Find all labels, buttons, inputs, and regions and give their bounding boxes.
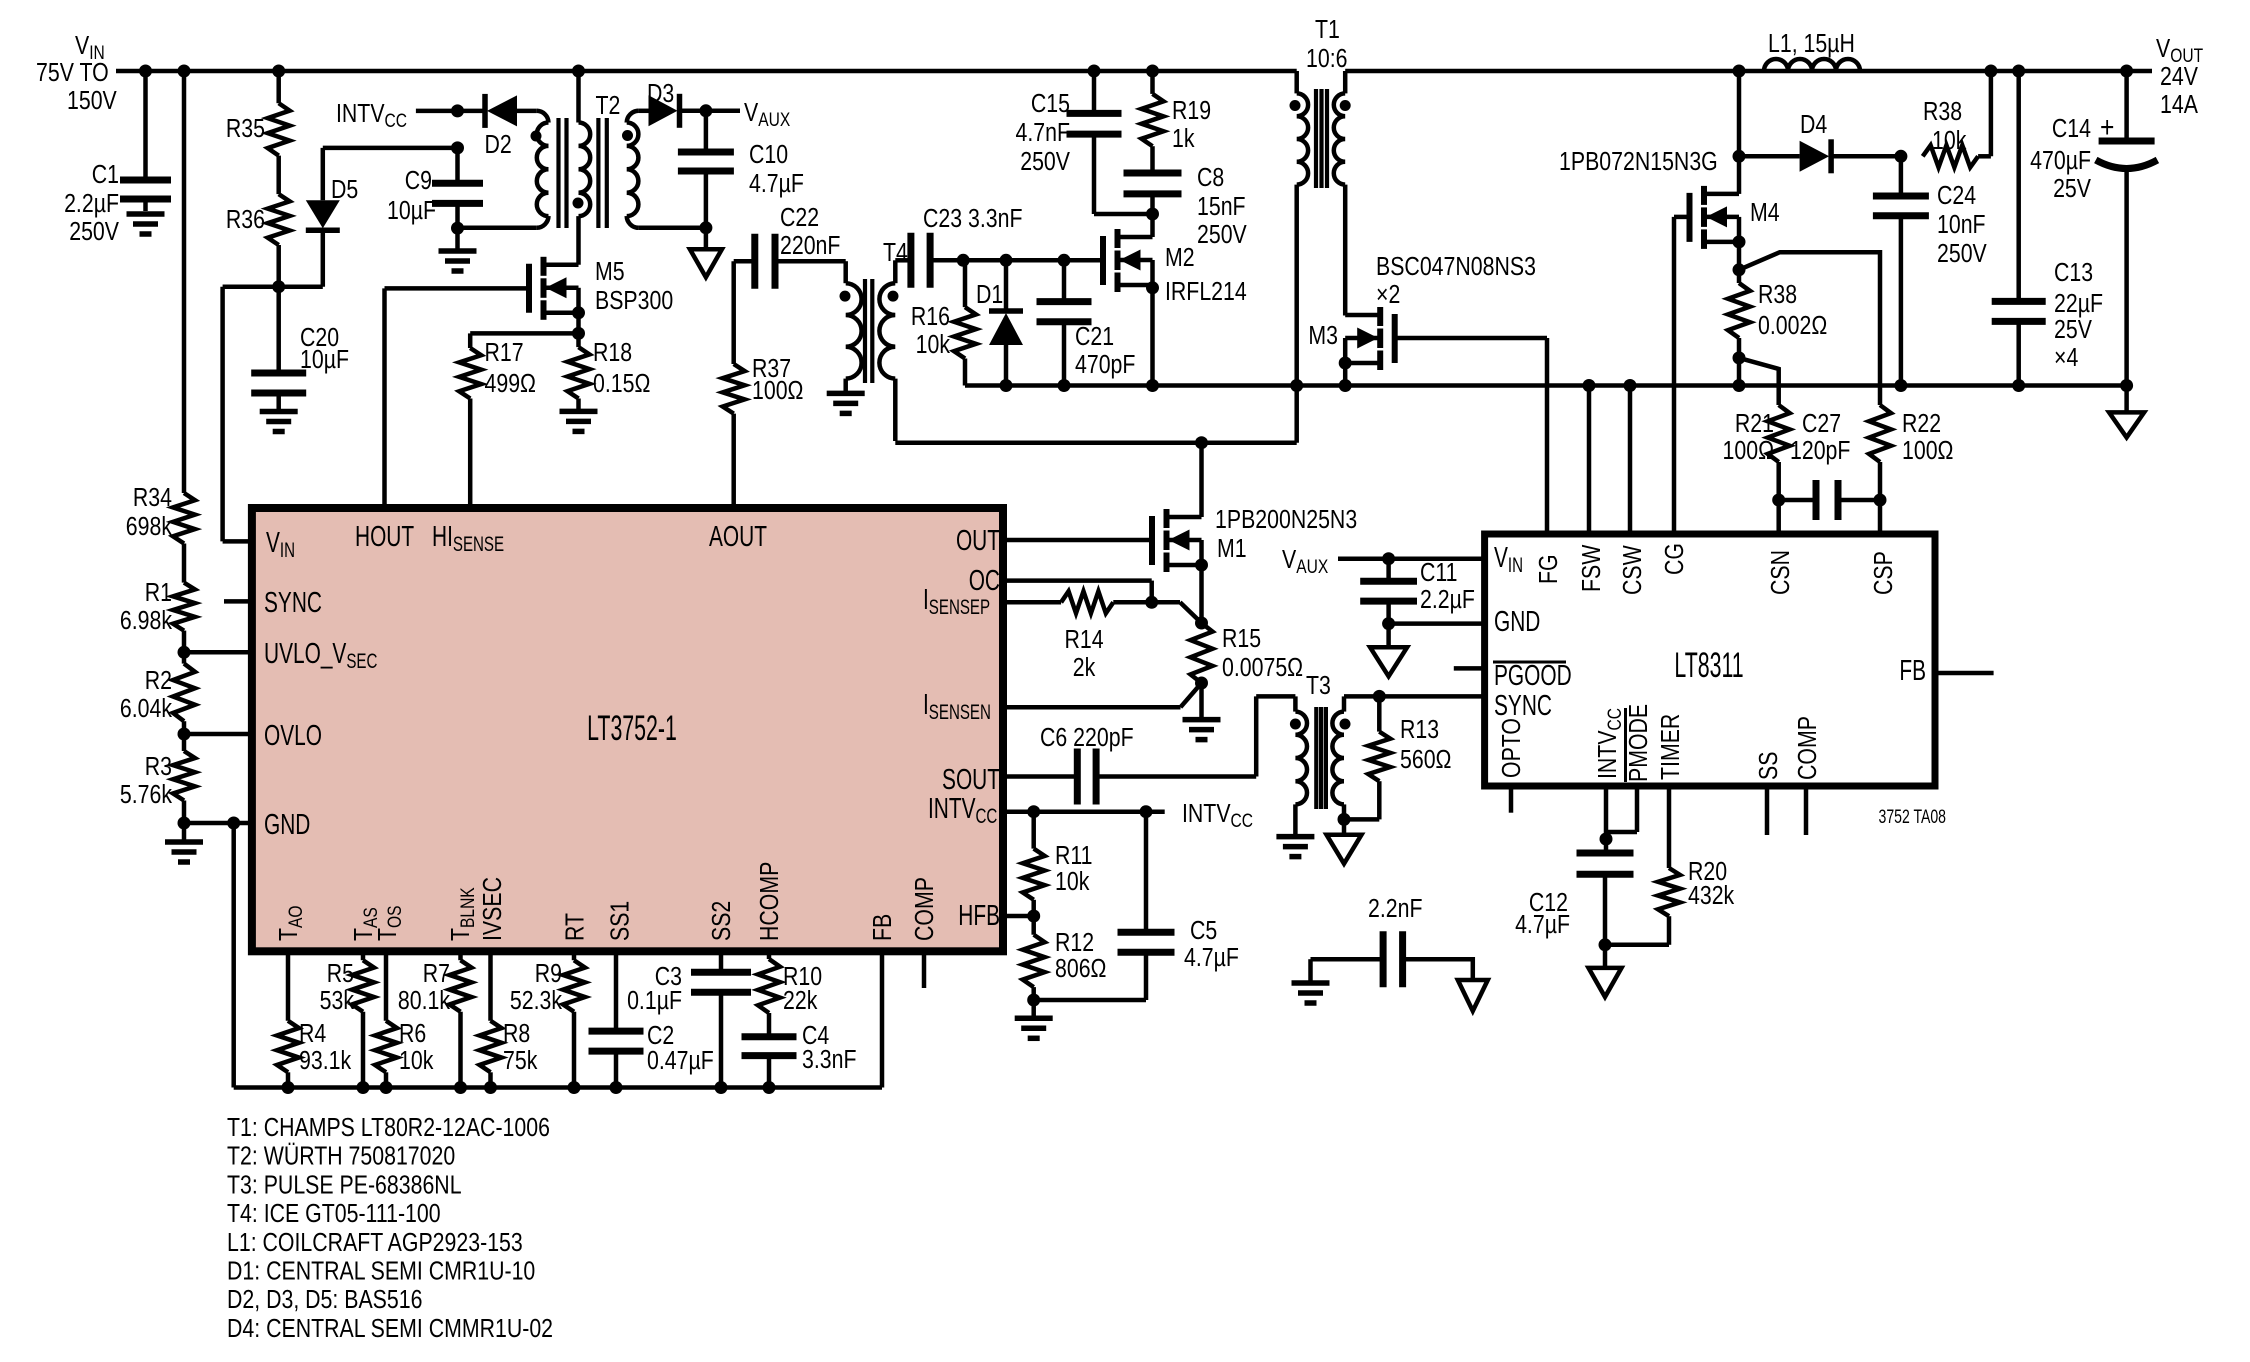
diode D2 xyxy=(485,94,537,160)
svg-text:2.2µF: 2.2µF xyxy=(1420,585,1475,615)
junction dot HFB xyxy=(1027,910,1040,923)
junction dot M4 source xyxy=(1733,235,1746,248)
junction dot VAUX/C10 xyxy=(699,104,712,117)
ground R12 xyxy=(1015,1000,1053,1038)
transformer T4 winding W1 xyxy=(846,261,862,393)
capacitor C1 xyxy=(64,71,171,247)
transformer T1 label xyxy=(1306,15,1347,74)
wire C15 to C8 node xyxy=(1094,212,1153,217)
wire R12 bottom xyxy=(1031,987,1036,1000)
junction dot M1 drain branch xyxy=(1195,436,1208,449)
svg-text:R3: R3 xyxy=(145,752,172,782)
ground T4 primary xyxy=(827,393,865,413)
resistor R22 xyxy=(1869,405,1953,466)
wire kelvin CSP xyxy=(1739,252,1880,405)
svg-text:24V: 24V xyxy=(2160,62,2198,92)
svg-text:R5: R5 xyxy=(327,959,354,989)
wire VAUX stub xyxy=(706,109,740,114)
svg-text:IRFL214: IRFL214 xyxy=(1165,277,1247,307)
junction dot T1/rail2 xyxy=(1290,379,1303,392)
capacitor C15 xyxy=(1015,71,1121,214)
junction dot C4/bus xyxy=(763,1081,776,1094)
wire CSW pin xyxy=(1628,386,1633,535)
junction dot R6/bus xyxy=(380,1081,393,1094)
svg-text:PMODE: PMODE xyxy=(1624,704,1654,782)
capacitor C5 xyxy=(1034,812,1239,1000)
transformer T2 winding W3 xyxy=(627,111,706,228)
svg-text:470pF: 470pF xyxy=(1075,350,1135,380)
resistor R8 xyxy=(480,1019,538,1076)
junction dot GND branch xyxy=(227,817,240,830)
wire COMP stub xyxy=(922,951,927,988)
wire D5 top to INTVCC node xyxy=(323,146,458,151)
wire TOS pin xyxy=(384,951,389,1020)
svg-text:R2: R2 xyxy=(145,666,172,696)
svg-text:D4: D4 xyxy=(1800,110,1827,140)
svg-text:C5: C5 xyxy=(1190,916,1217,946)
svg-text:250V: 250V xyxy=(1937,239,1987,269)
junction dot T2 W2/rail xyxy=(572,65,585,78)
transformer T4 phase dot W1 xyxy=(840,291,851,302)
junction dot M5 source xyxy=(572,306,585,319)
junction dot D4 node xyxy=(1733,150,1746,163)
junction dot CSW/rail2 xyxy=(1624,379,1637,392)
capacitor C23 xyxy=(895,204,1022,288)
junction dot C12 bottom xyxy=(1599,938,1612,951)
svg-text:D4: CENTRAL SEMI CMMR1U-02: D4: CENTRAL SEMI CMMR1U-02 xyxy=(227,1314,553,1344)
wire M1 source to R15 xyxy=(1199,565,1204,623)
capacitor C21 xyxy=(1037,260,1136,385)
svg-text:100Ω: 100Ω xyxy=(1902,436,1953,466)
svg-text:C15: C15 xyxy=(1031,89,1070,119)
wire C3 to bus xyxy=(719,992,724,1087)
svg-text:SS2: SS2 xyxy=(707,901,737,941)
svg-text:C1: C1 xyxy=(92,160,119,190)
resistor R3 xyxy=(120,734,195,810)
svg-text:220nF: 220nF xyxy=(780,231,840,261)
ground C12 (triangle) xyxy=(1589,945,1622,997)
wire UVLO_VSEC pin xyxy=(184,650,252,655)
diode D5 xyxy=(306,148,358,287)
ground VAUX (triangle) xyxy=(690,228,722,277)
svg-text:250V: 250V xyxy=(1197,220,1247,250)
resistor R16 xyxy=(911,260,976,359)
svg-text:806Ω: 806Ω xyxy=(1055,954,1106,984)
svg-text:R7: R7 xyxy=(423,959,450,989)
svg-text:R14: R14 xyxy=(1064,625,1103,655)
node line C20/D5/R36 xyxy=(223,284,323,289)
svg-text:R4: R4 xyxy=(299,1019,326,1049)
wire SS1 pin xyxy=(614,951,619,1031)
wire SS2 pin xyxy=(719,951,724,972)
svg-text:×4: ×4 xyxy=(2054,343,2078,373)
junction dot INTVCC/C9 xyxy=(451,104,464,117)
svg-text:1PB200N25N3: 1PB200N25N3 xyxy=(1215,505,1357,535)
transformer T4 phase dot W2 xyxy=(888,291,899,302)
svg-text:53k: 53k xyxy=(320,986,354,1016)
svg-text:T2: T2 xyxy=(596,91,621,121)
svg-text:C21: C21 xyxy=(1075,322,1114,352)
transformer T1 core xyxy=(1316,89,1327,188)
svg-text:C11: C11 xyxy=(1420,558,1458,588)
svg-text:HFB: HFB xyxy=(958,900,1000,932)
node VAUX label (LT8311) xyxy=(1282,545,1329,577)
svg-text:C23 3.3nF: C23 3.3nF xyxy=(923,204,1023,234)
svg-text:4.7µF: 4.7µF xyxy=(1515,910,1570,940)
svg-text:R22: R22 xyxy=(1902,409,1941,439)
junction dot GND node xyxy=(178,817,191,830)
wire R21 to CSN xyxy=(1776,462,1781,534)
wire FB stub xyxy=(1935,671,1994,676)
svg-text:D1: CENTRAL SEMI CMR1U-10: D1: CENTRAL SEMI CMR1U-10 xyxy=(227,1257,535,1287)
wire SYNC net xyxy=(1344,694,1485,699)
wire R9 to bus xyxy=(572,1012,577,1088)
wire FSW pin xyxy=(1587,386,1592,535)
junction dot M3 source xyxy=(1339,357,1352,370)
transformer T2 core 2 xyxy=(598,118,606,228)
junction dot C5 top xyxy=(1140,805,1153,818)
junction dot C2/bus xyxy=(610,1081,623,1094)
svg-text:25V: 25V xyxy=(2054,315,2092,345)
svg-text:AOUT: AOUT xyxy=(709,521,767,553)
svg-text:D3: D3 xyxy=(647,79,674,109)
svg-text:10k: 10k xyxy=(916,330,950,360)
wire R34-R1 xyxy=(182,544,187,583)
svg-text:R18: R18 xyxy=(593,338,632,368)
transformer T3 phase dot W1 xyxy=(1290,719,1301,730)
transformer T3 core xyxy=(1316,707,1326,809)
wire PGOOD stub xyxy=(1454,666,1485,671)
transformer T4 label xyxy=(883,238,908,268)
wire OPTO stub xyxy=(1509,786,1514,813)
wire M3 source to rail2 xyxy=(1343,363,1348,386)
junction dot R4/bus xyxy=(282,1081,295,1094)
transistor M3 label xyxy=(1376,252,1536,310)
wire GND pin xyxy=(1389,621,1485,626)
transformer T3 winding W1 xyxy=(1295,696,1307,836)
svg-text:6.04k: 6.04k xyxy=(120,694,172,724)
wire GND pin xyxy=(184,821,252,826)
svg-text:499Ω: 499Ω xyxy=(485,369,536,399)
junction dot C3/bus xyxy=(715,1081,728,1094)
svg-text:C27: C27 xyxy=(1802,409,1841,439)
junction dot C21/rail2 xyxy=(1058,379,1071,392)
wire SOUT pin xyxy=(1003,774,1077,779)
svg-text:3752 TA08: 3752 TA08 xyxy=(1879,806,1946,828)
svg-text:250V: 250V xyxy=(1020,147,1070,177)
resistor R2 xyxy=(120,652,195,723)
svg-text:10µF: 10µF xyxy=(387,196,436,226)
wire M3 drain xyxy=(1343,313,1348,318)
resistor R7 xyxy=(398,959,472,1016)
svg-text:T4: ICE GT05-111-100: T4: ICE GT05-111-100 xyxy=(227,1199,441,1229)
transistor M1 xyxy=(1152,505,1357,572)
capacitor C13 xyxy=(1992,71,2103,386)
capacitor C24 xyxy=(1873,156,1987,385)
resistor R4 xyxy=(277,1019,351,1076)
capacitor C6 xyxy=(1040,723,1134,804)
resistor R9 xyxy=(510,959,585,1016)
junction dot R8/bus xyxy=(484,1081,497,1094)
svg-text:SYNC: SYNC xyxy=(1494,690,1552,722)
wire R14 to node xyxy=(1113,600,1180,605)
transformer T1 winding W2 xyxy=(1334,71,1345,316)
junction dot C21 top xyxy=(1058,254,1071,267)
svg-text:10nF: 10nF xyxy=(1937,210,1986,240)
wire top rail (right of T1) xyxy=(1345,69,2152,74)
junction dot M4/rail2 xyxy=(1733,379,1746,392)
svg-text:93.1k: 93.1k xyxy=(299,1046,351,1076)
junction dot R15 bottom xyxy=(1195,677,1208,690)
wire R1 to UVLO node xyxy=(182,631,187,653)
wire R6 to bus xyxy=(384,1072,389,1087)
svg-text:0.15Ω: 0.15Ω xyxy=(593,369,650,399)
resistor R18 xyxy=(568,333,651,398)
wire TBLNK pin xyxy=(458,951,463,960)
junction dot R16 top xyxy=(957,254,970,267)
wire M4 source down xyxy=(1737,242,1742,270)
svg-text:470µF: 470µF xyxy=(2030,146,2091,176)
junction dot R17 branch xyxy=(572,327,585,340)
svg-text:SOUT: SOUT xyxy=(942,764,1000,796)
capacitor C3 xyxy=(627,962,751,1016)
svg-text:R1: R1 xyxy=(145,578,172,608)
ground 2.2nF primary xyxy=(1292,959,1330,1003)
wire VAUX to VIN pin xyxy=(1338,556,1485,561)
resistor R20 xyxy=(1658,857,1734,916)
diode D4 xyxy=(1739,110,1901,173)
junction dot R38/rail xyxy=(1984,65,1997,78)
svg-text:L1: COILCRAFT AGP2923-153: L1: COILCRAFT AGP2923-153 xyxy=(227,1228,523,1258)
wire M4 drain riser xyxy=(1737,71,1742,156)
junction dot L1 left xyxy=(1733,65,1746,78)
svg-text:D2, D3, D5: BAS516: D2, D3, D5: BAS516 xyxy=(227,1285,422,1315)
resistor R17 xyxy=(459,338,536,399)
wire TAS pin xyxy=(361,951,366,960)
svg-text:15nF: 15nF xyxy=(1197,192,1246,222)
wire kelvin CSN xyxy=(1739,358,1779,405)
svg-text:IVSEC: IVSEC xyxy=(478,877,508,941)
junction dot R38 sense top xyxy=(1733,263,1746,276)
svg-text:R16: R16 xyxy=(911,302,950,332)
junction dot R15 top xyxy=(1195,617,1208,630)
wire R38 to rail xyxy=(1978,71,1991,156)
svg-text:120pF: 120pF xyxy=(1790,436,1850,466)
ground C11 (triangle) xyxy=(1370,624,1407,677)
wire OUT pin to M1 gate xyxy=(1003,538,1152,543)
junction dot C9 bottom xyxy=(451,222,464,235)
ground T3 primary xyxy=(1276,837,1314,857)
diode D3 xyxy=(638,79,706,128)
svg-text:1PB072N15N3G: 1PB072N15N3G xyxy=(1559,147,1718,177)
svg-text:L1, 15µH: L1, 15µH xyxy=(1768,29,1855,59)
wire rail to R34 xyxy=(182,71,187,493)
svg-text:C22: C22 xyxy=(780,203,819,233)
junction dot R14/OC node xyxy=(1145,596,1158,609)
capacitor C10 xyxy=(678,111,804,228)
junction dot C13/rail2 xyxy=(2012,379,2025,392)
svg-text:R34: R34 xyxy=(133,483,172,513)
wire HCOMP pin xyxy=(767,951,772,959)
node INTVCC label (left) xyxy=(336,99,407,131)
node 3752 TA08 note xyxy=(1879,806,1946,828)
wire FB pin to bus xyxy=(880,951,885,1087)
capacitor C9 xyxy=(387,148,483,228)
resistor R34 xyxy=(126,483,195,543)
svg-text:CSW: CSW xyxy=(1618,545,1648,595)
capacitor C8 xyxy=(1124,146,1247,249)
svg-text:250V: 250V xyxy=(69,217,119,247)
resistor R38 (sense) xyxy=(1728,270,1827,358)
svg-text:10µF: 10µF xyxy=(300,345,349,375)
svg-text:FB: FB xyxy=(1899,655,1926,687)
capacitor C22 xyxy=(734,203,846,289)
transformer T2 phase dot W3 xyxy=(622,130,633,141)
svg-text:BSP300: BSP300 xyxy=(595,286,673,316)
svg-text:SS: SS xyxy=(1754,752,1784,780)
svg-text:R9: R9 xyxy=(535,959,562,989)
transistor M4 xyxy=(1690,156,1780,249)
svg-text:4.7µF: 4.7µF xyxy=(749,169,804,199)
resistor R1 xyxy=(120,578,195,636)
svg-text:14A: 14A xyxy=(2160,90,2198,120)
svg-text:HCOMP: HCOMP xyxy=(755,862,785,941)
junction dot R9/bus xyxy=(568,1081,581,1094)
capacitor C20 xyxy=(251,287,349,412)
junction dot C11 top xyxy=(1382,552,1395,565)
svg-text:R19: R19 xyxy=(1172,96,1211,126)
junction dot INTVCC/C12 xyxy=(1600,833,1613,846)
svg-text:TIMER: TIMER xyxy=(1656,714,1686,780)
wire R22 to CSP xyxy=(1878,462,1883,534)
capacitor C14 (polarized) xyxy=(2030,71,2157,386)
junction dot R5/bus xyxy=(357,1081,370,1094)
node INTVCC label (right) xyxy=(1182,799,1253,831)
junction dot R19/rail xyxy=(1146,65,1159,78)
wire HFB pin xyxy=(1003,914,1034,919)
svg-text:CG: CG xyxy=(1660,543,1690,575)
junction dot C10 bottom xyxy=(699,221,712,234)
svg-text:10k: 10k xyxy=(1932,126,1966,156)
wire R4 to bus xyxy=(286,1072,291,1087)
resistor R15 xyxy=(1191,623,1304,683)
ground C1 xyxy=(127,214,165,234)
svg-text:C6 220pF: C6 220pF xyxy=(1040,723,1134,753)
wire R17 to HISENSE pin xyxy=(468,399,473,509)
wire V_IN top rail (left) xyxy=(116,69,1297,74)
transformer T1 phase dot W2 xyxy=(1340,100,1351,111)
svg-text:T4: T4 xyxy=(883,238,908,268)
svg-text:FB: FB xyxy=(868,914,898,941)
wire OVLO pin xyxy=(184,732,252,737)
svg-text:R38: R38 xyxy=(1923,97,1962,127)
svg-text:RT: RT xyxy=(561,913,591,941)
svg-text:SYNC: SYNC xyxy=(264,587,322,619)
wire IVSEC pin xyxy=(488,951,493,1020)
transistor M5 xyxy=(529,257,673,320)
svg-text:OVLO: OVLO xyxy=(264,720,322,752)
wire SYNC stub (LT3752) xyxy=(224,599,252,604)
wire sense node line xyxy=(963,258,1103,263)
svg-text:R6: R6 xyxy=(399,1019,426,1049)
ground R15 xyxy=(1183,683,1221,740)
transformer T3 label xyxy=(1306,671,1331,701)
svg-text:C10: C10 xyxy=(749,140,788,170)
svg-text:5.76k: 5.76k xyxy=(120,780,172,810)
junction dot M3/rail2 xyxy=(1339,379,1352,392)
wire VIN pin riser xyxy=(223,287,252,542)
wire R11 to HFB xyxy=(1031,900,1036,916)
junction dot C15/rail xyxy=(1088,65,1101,78)
wire ISENSEP pin xyxy=(1003,600,1061,605)
svg-text:M4: M4 xyxy=(1750,198,1780,228)
wire R3 to GND node xyxy=(182,801,187,824)
svg-text:GND: GND xyxy=(264,809,310,841)
svg-text:4.7µF: 4.7µF xyxy=(1184,943,1239,973)
svg-text:LT8311: LT8311 xyxy=(1674,647,1743,686)
junction dot OVLO node xyxy=(178,728,191,741)
transformer T3 phase dot W2 xyxy=(1340,719,1351,730)
junction dot C24/rail2 xyxy=(1894,379,1907,392)
svg-text:3.3nF: 3.3nF xyxy=(802,1045,857,1075)
svg-text:M5: M5 xyxy=(595,257,625,287)
svg-text:698k: 698k xyxy=(126,512,172,542)
svg-text:D2: D2 xyxy=(485,130,512,160)
wire RT pin xyxy=(572,951,577,960)
node parts list xyxy=(227,1113,553,1343)
svg-text:M3: M3 xyxy=(1308,321,1338,351)
svg-text:D1: D1 xyxy=(976,280,1003,310)
wire R17 branch xyxy=(470,333,578,348)
capacitor C12 xyxy=(1515,853,1633,945)
transformer T4 core xyxy=(865,279,872,383)
svg-text:1k: 1k xyxy=(1172,124,1195,154)
svg-text:C9: C9 xyxy=(405,166,432,196)
svg-text:22k: 22k xyxy=(783,986,817,1016)
svg-text:10:6: 10:6 xyxy=(1306,44,1347,74)
transformer T2 label xyxy=(596,91,621,121)
resistor R21 xyxy=(1723,405,1790,466)
svg-text:4.7nF: 4.7nF xyxy=(1015,118,1070,148)
wire R20 to C12 node xyxy=(1605,916,1669,945)
svg-text:T2: WÜRTH 750817020: T2: WÜRTH 750817020 xyxy=(227,1142,455,1172)
resistor R36 xyxy=(226,156,290,287)
junction dot R35/rail xyxy=(272,65,285,78)
wire INTVCC feed xyxy=(416,109,484,114)
ground 2.2nF secondary (triangle) xyxy=(1458,980,1488,1011)
svg-text:C13: C13 xyxy=(2054,258,2093,288)
resistor R14 xyxy=(1061,591,1113,682)
junction dot C20 node xyxy=(272,280,285,293)
junction dot C1/rail xyxy=(139,65,152,78)
inductor L1 xyxy=(1764,29,1860,71)
resistor R11 xyxy=(1023,812,1093,900)
junction dot C9 top node xyxy=(451,141,464,154)
wire R7 to bus xyxy=(458,1012,463,1088)
ground input ladder xyxy=(165,823,203,862)
svg-text:75k: 75k xyxy=(503,1046,537,1076)
capacitor C27 xyxy=(1779,409,1880,520)
junction dot R12 bottom xyxy=(1027,994,1040,1007)
wire C22 to R37 xyxy=(731,261,736,364)
wire M1 drain xyxy=(1199,443,1204,517)
ground C9 xyxy=(439,228,477,271)
junction dot C14/rail2 xyxy=(2120,379,2133,392)
op-amp U2 LT8311 block xyxy=(1485,534,1935,786)
capacitor C4 xyxy=(742,1013,857,1075)
node VAUX label xyxy=(744,98,791,130)
ground T3 secondary (triangle) xyxy=(1327,819,1362,863)
